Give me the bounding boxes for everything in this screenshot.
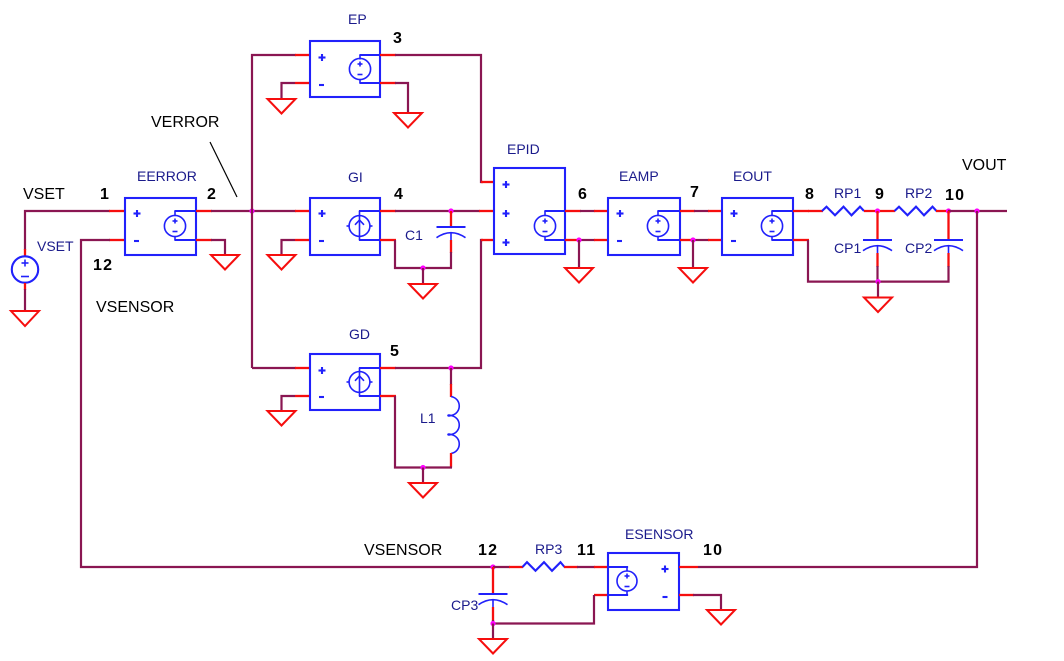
pin stub GD plus input <box>295 367 310 369</box>
ground under output rail <box>864 298 892 313</box>
pin stub EAMP plus input <box>594 210 608 212</box>
wire node 5 down to L1 <box>450 368 452 385</box>
capacitor CP3 bottom lead <box>492 607 494 621</box>
svg-text:12: 12 <box>93 257 113 274</box>
wire EAMP minus to ground <box>692 240 694 268</box>
pin stub EPID output minus <box>565 239 581 241</box>
ground at GD minus input <box>268 411 296 426</box>
svg-text:VSET: VSET <box>23 186 65 203</box>
ground under C1 rail <box>409 284 437 299</box>
svg-text:EP: EP <box>348 11 367 27</box>
wire node 8 to RP1 <box>808 210 823 212</box>
wire EPID minus output to EAMP minus input <box>580 239 595 241</box>
capacitor C1 <box>437 227 466 241</box>
ground under L1 rail <box>409 483 437 498</box>
capacitor CP1 bottom lead <box>876 253 878 267</box>
pin stub EERROR output plus <box>196 210 212 212</box>
voltage source VSET <box>12 256 38 282</box>
resistor RP1 <box>822 207 864 216</box>
junction L1 ground rail <box>420 465 425 470</box>
capacitor CP3 <box>479 594 508 608</box>
junction EAMP minus output <box>690 237 695 242</box>
pin stub ESENSOR plus sense <box>679 566 698 568</box>
svg-text:RP1: RP1 <box>834 185 861 201</box>
wire EPID minus to ground <box>578 240 580 268</box>
ground under EERROR output <box>211 255 239 270</box>
inductor L1 <box>448 397 459 454</box>
capacitor C1 bottom lead <box>450 240 452 253</box>
capacitor CP2 <box>934 240 963 254</box>
junction node 5 <box>448 365 453 370</box>
wire GI minus output down <box>394 240 396 269</box>
pin stub GI output plus <box>380 210 396 212</box>
junction rail ground <box>875 279 880 284</box>
ground under VSET <box>11 311 39 326</box>
wire VSET to ground <box>24 289 26 311</box>
ground at EPID minus output <box>565 268 593 283</box>
ground at EP minus output <box>394 113 422 128</box>
wire EP minus input to ground <box>282 83 296 99</box>
pin stub EPID input 3 <box>481 239 494 241</box>
capacitor CP1 <box>863 240 892 254</box>
junction node 10 <box>946 208 951 213</box>
wire node 6 to EAMP plus input <box>580 210 595 212</box>
wire node 12 to RP3 <box>493 566 510 568</box>
wire trunk node 2 vertical <box>252 55 296 368</box>
capacitor C1 top lead <box>450 211 452 226</box>
pin stub EOUT output plus <box>793 210 809 212</box>
pin stub GD minus input <box>295 395 310 397</box>
wire CP1 to rail <box>876 266 878 282</box>
wire EAMP minus output to EOUT minus input <box>694 239 709 241</box>
svg-text:RP3: RP3 <box>535 541 562 557</box>
pin stub ESENSOR minus sense <box>679 594 694 596</box>
svg-text:4: 4 <box>394 186 404 203</box>
pin stub EP output minus <box>380 82 396 84</box>
svg-text:CP3: CP3 <box>451 597 478 613</box>
pin stub EP plus input <box>295 54 310 56</box>
wire EOUT minus output to rail <box>808 240 949 282</box>
pointer line VERROR to node 2 <box>210 142 237 197</box>
pin lead RP3 right <box>564 566 578 568</box>
wire node 11 to ESENSOR <box>577 566 595 568</box>
ground at ESENSOR minus sense <box>707 610 735 625</box>
svg-text:VOUT: VOUT <box>962 157 1007 174</box>
wire rail junction to ground <box>877 282 879 298</box>
svg-text:VSET: VSET <box>37 238 74 254</box>
svg-text:2: 2 <box>207 186 217 203</box>
pin stub EOUT output minus <box>793 239 809 241</box>
svg-text:1: 1 <box>100 186 110 203</box>
inductor L1 top lead <box>450 384 452 397</box>
wire junction to ground stub <box>422 268 424 284</box>
pin stub EAMP minus input <box>594 239 608 241</box>
pin stub EPID input 1 <box>481 181 494 183</box>
pin stub GI minus input <box>295 239 310 241</box>
ground at EP minus input <box>268 99 296 114</box>
wire trunk to GD plus input <box>252 367 296 369</box>
svg-text:L1: L1 <box>420 410 436 426</box>
ground at EAMP minus output <box>679 268 707 283</box>
svg-text:GI: GI <box>348 169 363 185</box>
pin stub EP output plus <box>380 54 396 56</box>
junction CP3 ground <box>490 621 495 626</box>
pin stub ESENSOR output minus <box>594 594 608 596</box>
svg-text:CP1: CP1 <box>834 240 861 256</box>
svg-text:EPID: EPID <box>507 141 540 157</box>
wire node 4 GI output to EPID input 2 <box>395 210 480 212</box>
E-source block EPID <box>494 168 565 254</box>
pin stub GI plus input <box>295 210 310 212</box>
E-source block EOUT <box>722 198 793 255</box>
pin stub EERROR plus input <box>109 210 125 212</box>
capacitor CP3 top lead <box>492 567 494 593</box>
resistor RP3 <box>523 562 565 571</box>
svg-text:8: 8 <box>805 186 815 203</box>
G-source block GI <box>310 198 380 255</box>
svg-text:C1: C1 <box>405 227 423 243</box>
pin stub EERROR output minus <box>196 239 212 241</box>
svg-text:GD: GD <box>349 326 370 342</box>
svg-text:VSENSOR: VSENSOR <box>364 542 442 559</box>
wire node 10 to right edge <box>948 210 1007 212</box>
E-source block ESENSOR (mirrored) <box>608 553 679 610</box>
wire EP minus output to ground <box>395 83 408 113</box>
pin stub EP minus input <box>295 82 310 84</box>
svg-text:7: 7 <box>690 184 700 201</box>
svg-text:12: 12 <box>478 542 498 559</box>
pin stub ESENSOR output plus <box>594 566 608 568</box>
svg-text:EERROR: EERROR <box>137 168 197 184</box>
svg-text:10: 10 <box>945 187 965 204</box>
svg-text:RP2: RP2 <box>905 185 932 201</box>
E-source block EAMP <box>608 198 680 255</box>
pin stub EOUT minus input <box>708 239 722 241</box>
junction node 9 <box>875 208 880 213</box>
svg-text:ESENSOR: ESENSOR <box>625 526 693 542</box>
junction node 12 <box>490 564 495 569</box>
inductor L1 bottom lead <box>450 453 452 468</box>
wire GD minus output to bottom rail <box>395 396 452 468</box>
wire EERROR minus input feedback down <box>81 240 494 567</box>
pin lead RP3 left <box>509 566 523 568</box>
junction node 2 <box>249 208 254 213</box>
ground under CP3 <box>479 639 507 654</box>
pin stub EAMP output minus <box>680 239 695 241</box>
wire node 5 GD output to EPID input 3 <box>395 240 483 368</box>
svg-text:EOUT: EOUT <box>733 168 772 184</box>
junction EPID minus output <box>576 237 581 242</box>
wire CP3 to junction <box>492 620 494 624</box>
pin stub EPID output plus <box>565 210 581 212</box>
capacitor CP1 top lead <box>876 211 878 239</box>
wire ESENSOR minus sense to ground <box>693 595 721 610</box>
svg-text:11: 11 <box>577 542 596 559</box>
svg-text:3: 3 <box>393 30 403 47</box>
wire VSET to EERROR plus input <box>25 211 110 250</box>
junction GI ground rail <box>420 265 425 270</box>
pin stub EERROR minus input <box>109 239 125 241</box>
svg-text:5: 5 <box>390 343 400 360</box>
pin stub GD output minus <box>380 395 396 397</box>
pin stub GI output minus <box>380 239 396 241</box>
svg-text:9: 9 <box>875 186 885 203</box>
resistor RP2 <box>895 207 937 216</box>
junction node 4 <box>448 208 453 213</box>
wire VOUT down to ESENSOR plus sense <box>698 211 977 567</box>
svg-text:10: 10 <box>703 542 723 559</box>
wire node 2 to junction <box>211 210 296 212</box>
capacitor CP2 top lead <box>947 211 949 239</box>
wire node 7 to EOUT plus input <box>694 210 709 212</box>
E-source block EP <box>310 41 380 97</box>
wire C1 to ground rail <box>394 252 451 268</box>
wire GI minus input to ground <box>282 240 296 255</box>
svg-text:6: 6 <box>578 186 588 203</box>
pin stub EAMP output plus <box>680 210 695 212</box>
pin stub EOUT plus input <box>708 210 722 212</box>
wire junction to ground stub L1 <box>422 468 424 484</box>
wire ESENSOR minus output to CP3 rail <box>492 595 594 624</box>
voltage source VSET pin stub top <box>24 249 26 256</box>
ground at GI minus input <box>268 255 296 270</box>
svg-text:VSENSOR: VSENSOR <box>96 299 174 316</box>
wire RP1 to RP2 <box>864 210 895 212</box>
svg-text:CP2: CP2 <box>905 240 932 256</box>
pin stub EPID input 2 <box>479 210 494 212</box>
pin stub GD output plus <box>380 367 396 369</box>
wire RP2 to node 10 <box>936 210 949 212</box>
voltage source VSET pin stub bottom <box>24 283 26 290</box>
junction VOUT branch <box>974 208 979 213</box>
G-source block GD <box>310 354 380 410</box>
wire node 3 EP output to EPID input 1 <box>395 55 483 182</box>
wire GD minus input to ground <box>282 396 296 411</box>
wire CP3 junction to ground <box>492 624 494 640</box>
E-source block EERROR <box>125 198 196 255</box>
svg-text:VERROR: VERROR <box>151 114 219 131</box>
capacitor CP2 bottom lead <box>947 253 949 267</box>
wire EERROR minus output to ground <box>211 240 225 255</box>
svg-text:EAMP: EAMP <box>619 168 659 184</box>
